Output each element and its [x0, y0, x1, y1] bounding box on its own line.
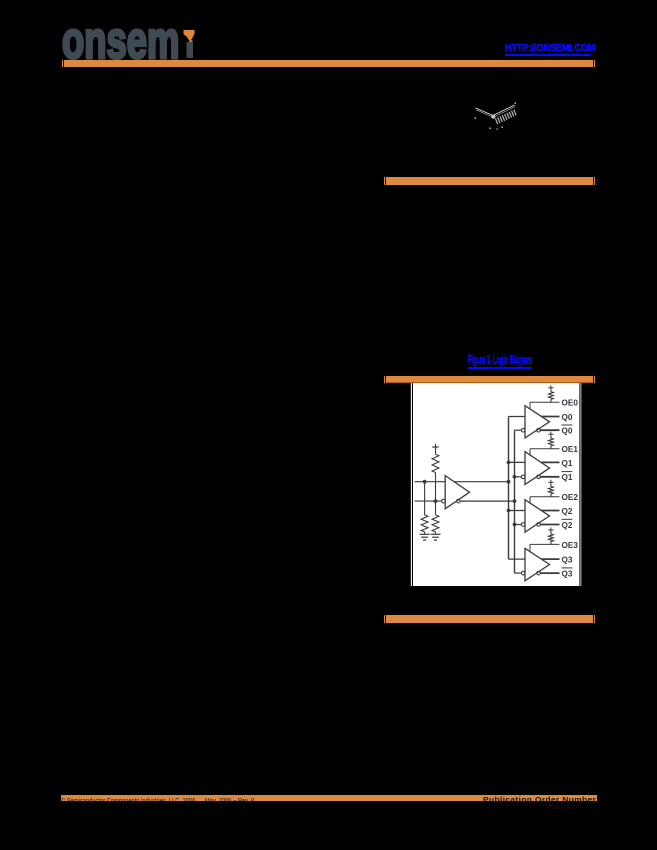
white figure background — [411, 383, 582, 586]
node complement bus junction — [513, 499, 517, 503]
wire Q0 — [541, 416, 559, 418]
wire input comp to U0 — [515, 429, 522, 431]
onsemi logo wordmark — [62, 26, 202, 62]
U0 inverting input bubble — [521, 428, 525, 432]
header link onsemi web address (blue) — [505, 43, 597, 55]
wire input true (left) — [415, 481, 446, 483]
svg-text:Q3: Q3 — [562, 556, 573, 565]
node true bus junction — [507, 461, 511, 465]
wire input comp to U3 — [515, 572, 522, 574]
spark (orange) — [184, 30, 195, 42]
ground left — [420, 533, 430, 535]
node true bus junction — [507, 480, 511, 484]
right column rule 2 — [386, 177, 593, 185]
node input true junction — [423, 480, 427, 484]
svg-text:Q1: Q1 — [562, 473, 573, 482]
U3 inverted output bubble — [537, 571, 541, 575]
VCC plus symbol (input pullup) — [432, 444, 438, 450]
wire input true to U0 — [509, 416, 526, 418]
resistor pullup OE3 — [550, 542, 552, 545]
wire Q0 bar — [540, 429, 559, 431]
node input complement junction — [434, 499, 438, 503]
svg-text:OE1: OE1 — [562, 445, 579, 454]
U3 inverting input bubble — [521, 571, 525, 575]
svg-text:onsem: onsem — [62, 26, 179, 62]
wire pullup to input — [435, 473, 437, 515]
svg-text:Q1: Q1 — [562, 459, 573, 468]
wire buffer out complement — [460, 500, 514, 502]
U2 inverted output bubble — [537, 523, 541, 527]
wire pulldown left — [424, 482, 426, 515]
top rule right tick — [594, 60, 595, 68]
svg-text:OE0: OE0 — [562, 399, 579, 408]
package case isometric drawing — [470, 99, 520, 131]
figure caption link (blue) — [468, 351, 535, 366]
top rule left tick — [62, 60, 63, 68]
footer publication order number (dark) — [483, 795, 603, 804]
node complement bus junction — [513, 523, 517, 527]
wire complement bus — [514, 430, 516, 573]
wire OE3 — [530, 543, 560, 545]
node true bus junction — [507, 509, 511, 513]
wire input true to U3 — [509, 558, 526, 560]
wire Q3 bar — [540, 572, 559, 574]
svg-text:Q2: Q2 — [562, 507, 573, 516]
input buffer output bubble — [457, 499, 461, 503]
op-amp output buffer U0 — [525, 406, 550, 438]
header link underline — [505, 54, 592, 56]
figure frame left — [412, 383, 413, 586]
resistor pullup OE1 — [550, 446, 552, 449]
node complement bus junction — [513, 475, 517, 479]
U1 inverted output bubble — [537, 475, 541, 479]
svg-text:OE2: OE2 — [562, 493, 579, 502]
VCC plus OE2 — [548, 480, 553, 485]
resistor pullup OE2 — [550, 494, 552, 497]
resistor pullup input — [432, 454, 439, 472]
op-amp output buffer U2 — [525, 500, 550, 533]
svg-text:OE3: OE3 — [562, 541, 579, 550]
wire Q3 — [541, 558, 559, 560]
wire input comp to U2 — [515, 524, 522, 526]
resistor pulldown left — [421, 515, 428, 532]
wire input true to U2 — [509, 510, 526, 512]
VCC plus OE3 — [548, 527, 553, 532]
U1 inverting input bubble — [521, 475, 525, 479]
resistor pullup OE0 — [550, 399, 552, 402]
wire input comp to U1 — [515, 476, 522, 478]
logic diagram figure — [410, 383, 582, 586]
ground right — [431, 533, 441, 535]
svg-text:Q2: Q2 — [562, 521, 573, 530]
letter i stem — [187, 42, 194, 58]
figure frame right — [579, 383, 580, 586]
wire input true to U1 — [509, 461, 526, 463]
U0 inverted output bubble — [537, 428, 541, 432]
wire buffer out true — [454, 481, 508, 483]
right column rule 3 (above figure) — [386, 376, 593, 383]
footer copyright text (dark, notches the rule) — [61, 798, 341, 805]
wire Q1 — [541, 461, 559, 463]
wire input complement (left) — [415, 500, 442, 502]
wire OE0 — [530, 401, 560, 403]
wire Q2 — [541, 510, 559, 512]
op-amp output buffer U1 — [525, 452, 550, 485]
footer rule — [61, 795, 597, 801]
wire pullup — [435, 450, 437, 454]
wire Q1 bar — [540, 476, 559, 478]
wire OE2 — [530, 496, 560, 498]
right column rule 4 (below figure) — [386, 615, 593, 623]
op-amp input buffer — [445, 476, 469, 509]
wire true bus — [508, 417, 510, 560]
VCC plus OE1 — [548, 432, 553, 437]
wire OE1 — [530, 448, 560, 450]
op-amp output buffer U3 — [525, 548, 550, 581]
U2 inverting input bubble — [521, 523, 525, 527]
wire Q2 bar — [540, 524, 559, 526]
VCC plus OE0 — [548, 385, 553, 390]
top orange rule — [64, 60, 593, 68]
svg-text:Q3: Q3 — [562, 570, 573, 579]
resistor pulldown right — [432, 515, 439, 532]
svg-text:Q0: Q0 — [562, 427, 573, 436]
input buffer inverting bubble — [442, 499, 446, 503]
svg-text:Q0: Q0 — [562, 413, 573, 422]
